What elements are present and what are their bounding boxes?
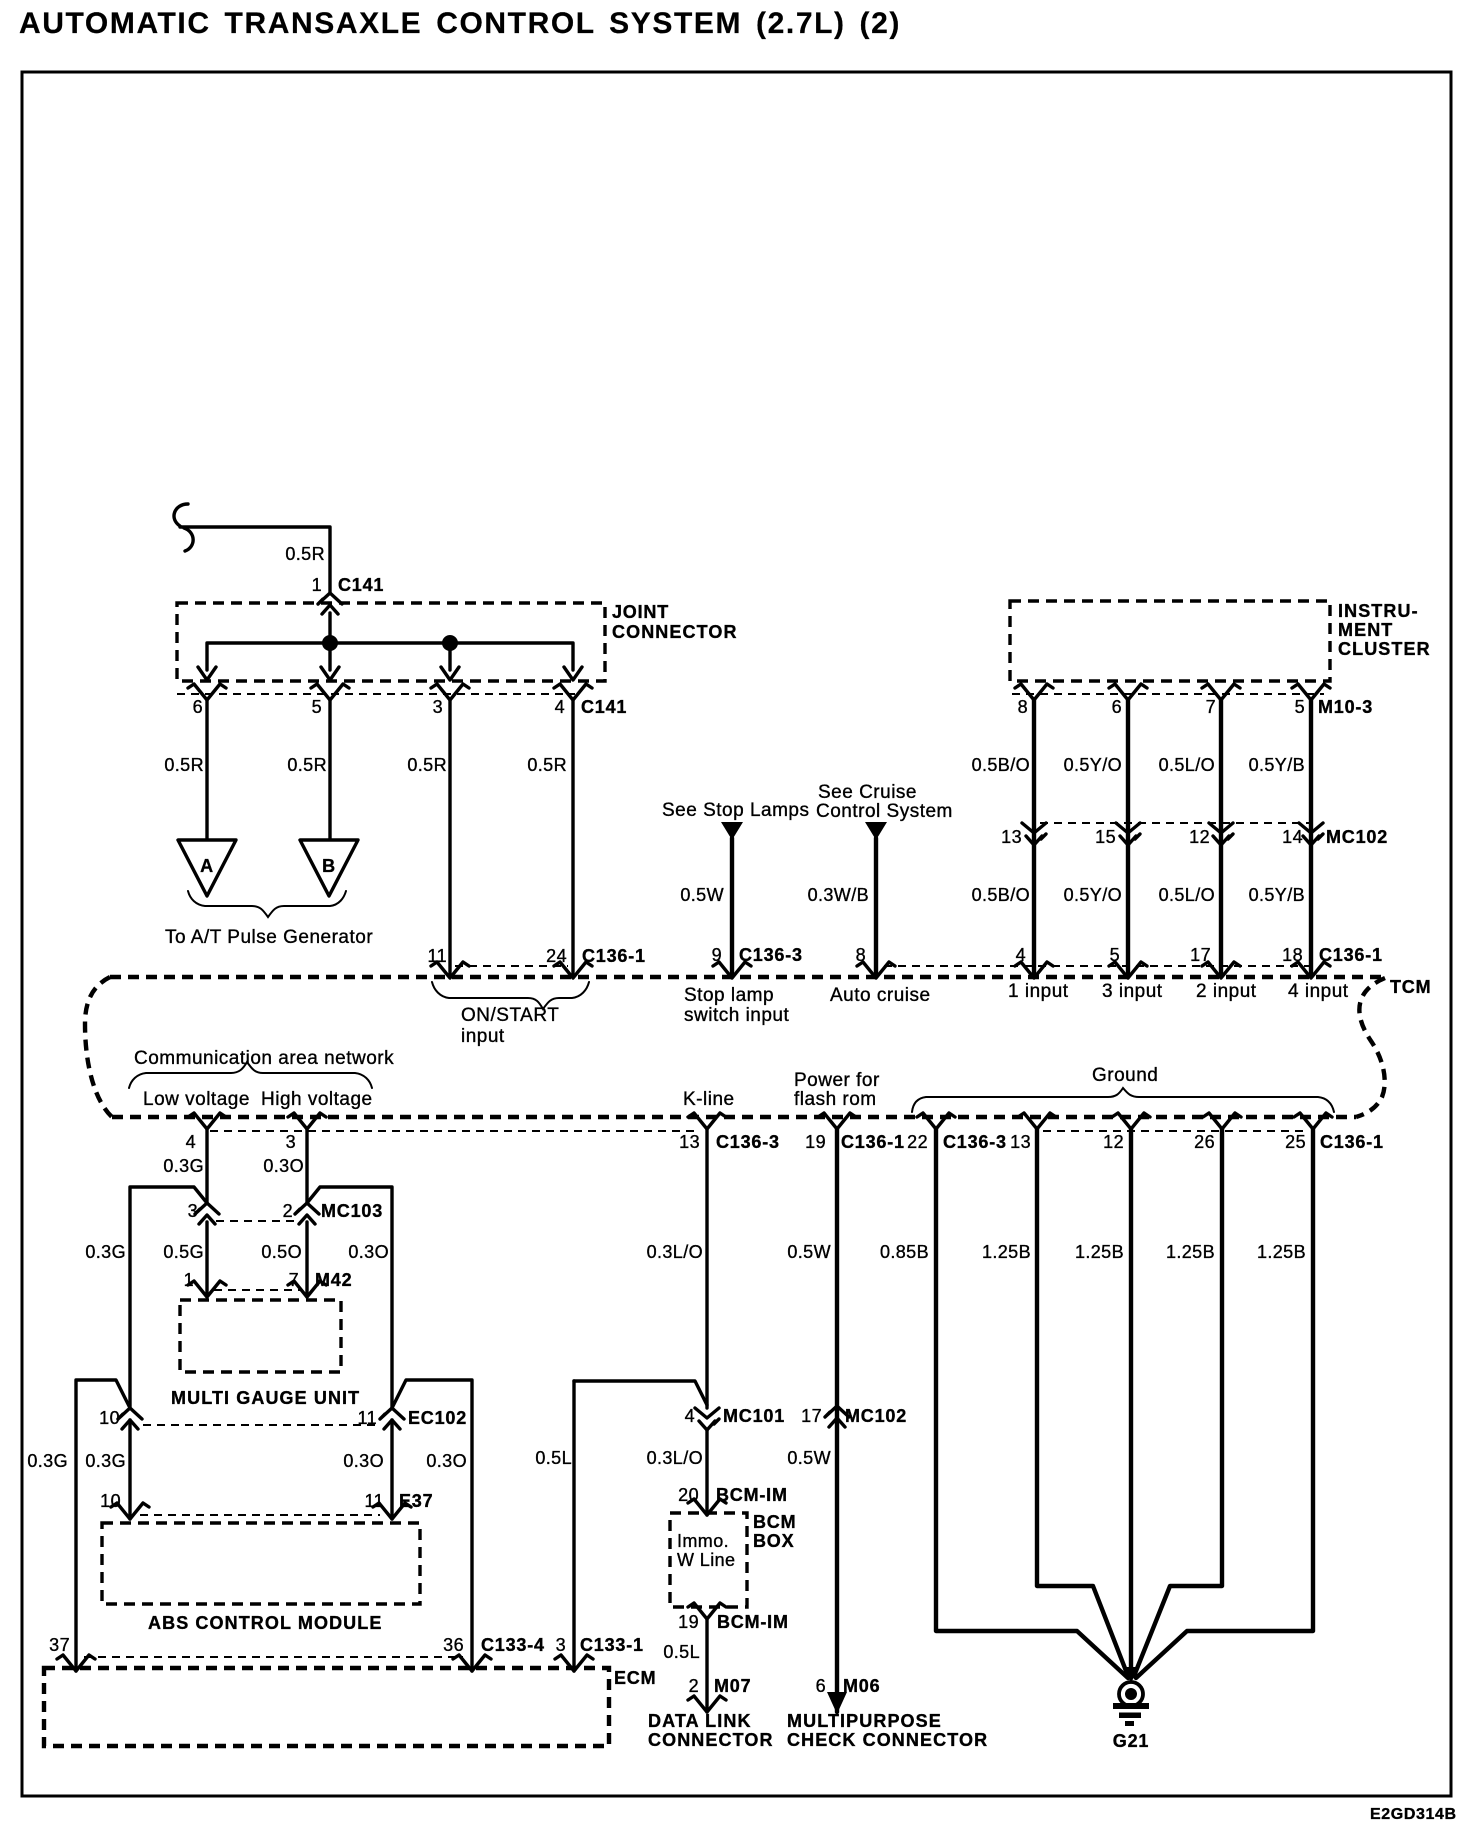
arrow M06 pin 6 — [827, 1692, 847, 1714]
svg-text:0.3O: 0.3O — [348, 1242, 389, 1262]
wire pin1 to bus — [328, 613, 331, 643]
svg-text:3 input: 3 input — [1102, 981, 1163, 1002]
svg-text:ON/START: ON/START — [461, 1005, 559, 1026]
TCM box left curve — [85, 977, 112, 1117]
svg-text:BOX: BOX — [753, 1531, 794, 1551]
connector line C136-3 (4/3/13) — [210, 1130, 700, 1132]
svg-text:0.5R: 0.5R — [164, 755, 204, 775]
svg-text:C136-1: C136-1 — [1319, 945, 1383, 965]
svg-text:0.5L: 0.5L — [535, 1448, 572, 1468]
svg-text:0.3O: 0.3O — [343, 1451, 384, 1471]
junction dot B — [442, 635, 458, 651]
svg-text:C141: C141 — [581, 697, 627, 717]
terminal A triangle — [178, 840, 236, 896]
wire 0.3G pin4 to MC103 — [205, 1129, 208, 1203]
svg-text:13: 13 — [1010, 1132, 1031, 1152]
svg-text:ABS CONTROL MODULE: ABS CONTROL MODULE — [148, 1613, 382, 1633]
INSTRUMENT CLUSTER box — [1010, 601, 1330, 681]
svg-text:3: 3 — [286, 1132, 296, 1152]
svg-text:0.5G: 0.5G — [163, 1242, 204, 1262]
TCM pin 17 input fork — [1202, 962, 1240, 978]
svg-text:0.3G: 0.3G — [163, 1156, 204, 1176]
TCM pin 5 input fork — [1109, 962, 1147, 978]
wire 0.5Y/O upper — [1126, 700, 1130, 977]
TCM box bottom edge — [112, 1115, 1356, 1119]
connector M42 pin 1 fork — [188, 1281, 226, 1297]
svg-text:Power for: Power for — [794, 1070, 880, 1091]
svg-text:11: 11 — [358, 1408, 378, 1428]
svg-text:5: 5 — [312, 697, 322, 717]
wire 0.5Y/B upper — [1309, 700, 1313, 977]
TCM bottom pin 3 fork — [288, 1113, 326, 1129]
brace communication area network — [129, 1062, 372, 1088]
brace Ground — [912, 1088, 1334, 1112]
svg-text:0.5Y/B: 0.5Y/B — [1249, 755, 1305, 775]
wire 0.5W flash rom — [835, 1129, 839, 1712]
svg-text:To A/T Pulse Generator: To A/T Pulse Generator — [165, 927, 373, 948]
svg-text:14: 14 — [1282, 827, 1303, 847]
svg-text:EC102: EC102 — [408, 1408, 467, 1428]
svg-text:input: input — [461, 1026, 505, 1047]
TCM bottom pin 4 fork — [188, 1113, 226, 1129]
svg-text:3: 3 — [188, 1201, 198, 1221]
svg-text:Communication area network: Communication area network — [134, 1048, 394, 1069]
svg-text:MC102: MC102 — [1326, 827, 1388, 847]
svg-text:M10-3: M10-3 — [1318, 697, 1373, 717]
wire 0.5R pin4 to TCM 24 — [571, 700, 574, 977]
svg-text:MULTIPURPOSE: MULTIPURPOSE — [787, 1711, 942, 1731]
svg-text:0.5R: 0.5R — [287, 755, 327, 775]
svg-text:0.3L/O: 0.3L/O — [647, 1448, 703, 1468]
svg-text:BCM-IM: BCM-IM — [716, 1485, 788, 1505]
wire 0.5G MC103 to M42 — [205, 1222, 208, 1297]
svg-text:See Cruise: See Cruise — [818, 782, 917, 803]
svg-text:MENT: MENT — [1338, 620, 1393, 640]
svg-text:1 input: 1 input — [1008, 981, 1069, 1002]
connector C141 pin 3 fork — [431, 684, 469, 700]
svg-text:0.5O: 0.5O — [261, 1242, 302, 1262]
svg-text:C133-4: C133-4 — [481, 1635, 545, 1655]
wire 0.3W/B auto cruise — [874, 838, 878, 977]
svg-text:BCM-IM: BCM-IM — [717, 1612, 789, 1632]
wire 0.5R pin6 to A — [205, 700, 208, 839]
BCM BOX box — [670, 1513, 747, 1607]
arrow to pin 6 — [198, 667, 216, 680]
svg-text:K-line: K-line — [683, 1089, 735, 1110]
svg-text:0.3L/O: 0.3L/O — [647, 1242, 703, 1262]
ECM box — [44, 1668, 609, 1746]
svg-text:ECM: ECM — [614, 1668, 656, 1688]
connector EC102 pin 10 chevrons — [118, 1408, 142, 1429]
connector M10-3 pin 6 fork — [1109, 684, 1147, 700]
svg-text:8: 8 — [1018, 697, 1028, 717]
svg-text:switch input: switch input — [684, 1005, 789, 1026]
svg-text:DATA LINK: DATA LINK — [648, 1711, 752, 1731]
off-page arrow (cruise) — [865, 822, 887, 840]
connector line C136-1 (8/4/5/17/18) — [884, 965, 1311, 967]
svg-text:19: 19 — [678, 1612, 699, 1632]
svg-text:0.3G: 0.3G — [85, 1451, 126, 1471]
svg-text:0.5W: 0.5W — [787, 1242, 831, 1262]
svg-text:22: 22 — [907, 1132, 928, 1152]
svg-text:0.5Y/B: 0.5Y/B — [1249, 885, 1305, 905]
svg-text:0.85B: 0.85B — [880, 1242, 929, 1262]
svg-text:15: 15 — [1095, 827, 1116, 847]
TCM pin 18 input fork — [1292, 962, 1330, 978]
svg-text:C136-1: C136-1 — [1320, 1132, 1384, 1152]
svg-text:17: 17 — [801, 1406, 822, 1426]
svg-text:High voltage: High voltage — [261, 1089, 373, 1110]
svg-text:1: 1 — [184, 1270, 194, 1290]
svg-text:5: 5 — [1295, 697, 1305, 717]
TCM bottom pin 25 fork — [1294, 1113, 1332, 1129]
connector E37 pin 10 fork — [111, 1503, 149, 1519]
svg-text:10: 10 — [99, 1408, 120, 1428]
wire squiggle (continuation mark) — [174, 504, 193, 551]
connector C141 pin 4 fork — [554, 684, 592, 700]
svg-text:C136-3: C136-3 — [943, 1132, 1007, 1152]
svg-text:M07: M07 — [714, 1676, 751, 1696]
wire 0.85B to G21 — [936, 1129, 1128, 1678]
svg-text:6: 6 — [193, 697, 203, 717]
connector line M10-3 — [1012, 693, 1324, 695]
svg-text:6: 6 — [1112, 697, 1122, 717]
TCM bottom pin 13 fork — [688, 1113, 726, 1129]
svg-text:0.5R: 0.5R — [407, 755, 447, 775]
svg-text:AUTOMATIC TRANSAXLE CONTROL SY: AUTOMATIC TRANSAXLE CONTROL SYSTEM (2.7L… — [19, 7, 901, 40]
svg-text:CLUSTER: CLUSTER — [1338, 639, 1431, 659]
svg-text:Low voltage: Low voltage — [143, 1089, 250, 1110]
ABS CONTROL MODULE box — [102, 1523, 420, 1604]
svg-text:0.3W/B: 0.3W/B — [808, 885, 869, 905]
ground G21 dot — [1125, 1688, 1137, 1700]
connector BCM-IM pin 19 fork — [688, 1603, 726, 1619]
wire branch MC103-2 to EC102-11 — [307, 1187, 392, 1407]
TCM pin 9 fork — [713, 962, 751, 978]
svg-text:MC101: MC101 — [723, 1406, 785, 1426]
svg-text:10: 10 — [100, 1491, 121, 1511]
wire 1.25B pin25 to G21 — [1136, 1129, 1313, 1678]
svg-text:M42: M42 — [315, 1270, 352, 1290]
connector line C133-4 — [84, 1656, 463, 1658]
wire branch MC103-3 to EC102-10 — [130, 1187, 207, 1407]
wire 0.5L/O upper — [1219, 700, 1223, 977]
svg-text:BCM: BCM — [753, 1512, 796, 1532]
wire 0.3L/O K-line — [705, 1129, 708, 1408]
connector MC103 pin 3 chevrons — [195, 1203, 219, 1224]
MULTI GAUGE UNIT box — [180, 1300, 341, 1372]
svg-text:C141: C141 — [338, 575, 384, 595]
svg-text:7: 7 — [1206, 697, 1216, 717]
connector M07 pin 2 fork — [688, 1696, 726, 1712]
connector line M42 — [214, 1289, 300, 1291]
TCM bottom pin 12 fork — [1112, 1113, 1150, 1129]
wire 0.5R pin3 to TCM 11 — [448, 700, 451, 977]
connector C141 pin 6 fork — [188, 684, 226, 700]
off-page arrow (stop lamps) — [721, 822, 743, 840]
svg-text:Control System: Control System — [816, 801, 953, 822]
connector C133-1 pin 3 fork — [555, 1655, 593, 1671]
svg-text:W Line: W Line — [677, 1550, 735, 1570]
svg-text:E2GD314B: E2GD314B — [1370, 1806, 1457, 1823]
svg-text:0.3G: 0.3G — [85, 1242, 126, 1262]
svg-text:0.5Y/O: 0.5Y/O — [1064, 755, 1122, 775]
svg-text:MC103: MC103 — [321, 1201, 383, 1221]
svg-text:6: 6 — [816, 1676, 826, 1696]
bus wire inside joint connector — [207, 643, 573, 670]
svg-text:0.5W: 0.5W — [680, 885, 724, 905]
connector MC101 pin 4 chevrons — [695, 1408, 719, 1430]
wire 0.5O MC103 to M42 — [305, 1222, 308, 1297]
wire 1.25B pin26 to G21 — [1134, 1129, 1222, 1676]
wire 0.3O pin3 to MC103 — [305, 1129, 308, 1203]
connector line MC103 — [216, 1220, 298, 1222]
svg-text:CONNECTOR: CONNECTOR — [612, 622, 738, 642]
ground G21 bar 3 — [1125, 1721, 1134, 1726]
TCM pin 24 fork — [554, 962, 592, 978]
svg-text:7: 7 — [289, 1270, 299, 1290]
svg-text:CONNECTOR: CONNECTOR — [648, 1730, 774, 1750]
svg-text:0.5L/O: 0.5L/O — [1159, 885, 1215, 905]
svg-text:Stop lamp: Stop lamp — [684, 985, 774, 1006]
svg-text:1.25B: 1.25B — [1166, 1242, 1215, 1262]
svg-text:Ground: Ground — [1092, 1065, 1158, 1086]
svg-text:1.25B: 1.25B — [982, 1242, 1031, 1262]
svg-text:M06: M06 — [843, 1676, 880, 1696]
arrow to pin 3 — [441, 667, 459, 680]
brace under A and B — [188, 891, 346, 917]
connector line C141 (pins 6/5/3/4) — [177, 693, 575, 695]
svg-text:CHECK CONNECTOR: CHECK CONNECTOR — [787, 1730, 988, 1750]
svg-text:20: 20 — [678, 1485, 699, 1505]
svg-text:1.25B: 1.25B — [1075, 1242, 1124, 1262]
ground G21 ring — [1119, 1682, 1143, 1706]
connector EC102 pin 11 chevrons — [380, 1408, 404, 1429]
wire 0.5B/O upper — [1032, 700, 1036, 977]
connector line E37 — [140, 1514, 380, 1516]
connector M10-3 pin 5 fork — [1292, 684, 1330, 700]
svg-text:C133-1: C133-1 — [580, 1635, 644, 1655]
svg-text:0.5L: 0.5L — [663, 1642, 700, 1662]
TCM box top edge — [110, 975, 1385, 979]
TCM pin 4 input fork — [1015, 962, 1053, 978]
TCM pin 11 fork — [431, 962, 469, 978]
connector C133-4 pin 36 fork — [453, 1655, 491, 1671]
wire 0.5R pin5 to B — [328, 700, 331, 839]
connector M10-3 pin 7 fork — [1202, 684, 1240, 700]
svg-text:Auto cruise: Auto cruise — [830, 985, 931, 1006]
TCM bottom pin 13b fork — [1018, 1113, 1056, 1129]
svg-text:E37: E37 — [399, 1491, 433, 1511]
svg-text:1.25B: 1.25B — [1257, 1242, 1306, 1262]
svg-text:MC102: MC102 — [845, 1406, 907, 1426]
connector line MC102 — [1040, 822, 1311, 824]
svg-text:flash rom: flash rom — [794, 1089, 877, 1110]
svg-text:INSTRU-: INSTRU- — [1338, 601, 1419, 621]
svg-text:3: 3 — [433, 697, 443, 717]
JOINT CONNECTOR box — [177, 603, 605, 681]
wire branch EC102-11 to ECM-36 — [392, 1380, 472, 1671]
wire 1.25B pin13 to G21 — [1037, 1129, 1128, 1676]
connector BCM-IM pin 20 fork — [688, 1499, 726, 1515]
wire 0.5R to C141 pin 1 — [180, 527, 330, 592]
TCM bottom pin 19 fork — [818, 1113, 856, 1129]
svg-text:G21: G21 — [1113, 1731, 1149, 1751]
svg-text:0.5B/O: 0.5B/O — [972, 885, 1030, 905]
wire 0.5L branch to MC101 — [574, 1381, 707, 1405]
svg-text:0.5W: 0.5W — [787, 1448, 831, 1468]
svg-text:2: 2 — [283, 1201, 293, 1221]
svg-text:36: 36 — [443, 1635, 464, 1655]
connector MC103 pin 2 chevrons — [295, 1203, 319, 1224]
svg-text:Immo.: Immo. — [677, 1531, 729, 1551]
svg-text:See Stop Lamps: See Stop Lamps — [662, 800, 809, 821]
svg-text:37: 37 — [49, 1635, 70, 1655]
svg-text:13: 13 — [1001, 827, 1022, 847]
TCM bottom pin 22 fork — [917, 1113, 955, 1129]
svg-text:25: 25 — [1285, 1132, 1306, 1152]
TCM bottom pin 26 fork — [1203, 1113, 1241, 1129]
connector C141 pin 1 chevrons — [318, 593, 342, 614]
ground G21 arrow — [1123, 1667, 1139, 1683]
svg-text:0.3G: 0.3G — [27, 1451, 68, 1471]
svg-text:12: 12 — [1103, 1132, 1124, 1152]
wire 0.5L to ECM pin 3 — [572, 1381, 575, 1671]
svg-text:0.3O: 0.3O — [426, 1451, 467, 1471]
svg-text:4: 4 — [555, 697, 565, 717]
connector MC102 pin 14 chevrons — [1299, 823, 1323, 845]
ground G21 bar 2 — [1119, 1713, 1141, 1719]
svg-text:JOINT: JOINT — [612, 602, 669, 622]
svg-text:2: 2 — [689, 1676, 699, 1696]
svg-text:0.3O: 0.3O — [263, 1156, 304, 1176]
wire branch EC102-10 to ECM-37 — [76, 1380, 130, 1671]
svg-text:C136-1: C136-1 — [582, 946, 646, 966]
connector MC102 pin 13 chevrons — [1022, 823, 1046, 845]
svg-text:26: 26 — [1194, 1132, 1215, 1152]
svg-text:19: 19 — [805, 1132, 826, 1152]
svg-text:11: 11 — [365, 1491, 385, 1511]
wire 0.3G EC102 to E37 — [128, 1420, 131, 1519]
connector MC102 pin 12 chevrons — [1209, 823, 1233, 845]
svg-text:1: 1 — [312, 575, 322, 595]
wire 0.3O EC102 to E37 — [390, 1420, 393, 1519]
svg-text:0.5R: 0.5R — [285, 544, 325, 564]
wire 0.3L/O MC101 to BCM — [705, 1430, 708, 1515]
svg-text:12: 12 — [1189, 827, 1210, 847]
svg-text:B: B — [322, 856, 336, 876]
wire 0.5W stop lamp — [730, 838, 734, 977]
TCM pin 8 fork — [857, 962, 895, 978]
arrow to pin 5 — [321, 667, 339, 680]
TCM box right curve — [1356, 978, 1385, 1117]
connector MC102 pin 15 chevrons — [1116, 823, 1140, 845]
svg-text:0.5B/O: 0.5B/O — [972, 755, 1030, 775]
svg-text:0.5R: 0.5R — [527, 755, 567, 775]
brace ON/START — [432, 982, 589, 1009]
svg-text:0.5L/O: 0.5L/O — [1159, 755, 1215, 775]
ground G21 bar 1 — [1113, 1703, 1149, 1709]
connector line C136-1 (13/12/26/25) — [1043, 1130, 1306, 1132]
connector C141 pin 5 fork — [311, 684, 349, 700]
wire 0.5L BCM to M07 — [705, 1619, 708, 1712]
svg-text:4 input: 4 input — [1288, 981, 1349, 1002]
svg-text:C136-1: C136-1 — [841, 1132, 905, 1152]
junction dot A — [322, 635, 338, 651]
svg-text:13: 13 — [679, 1132, 700, 1152]
connector line C136-1 (11/24) — [455, 965, 568, 967]
connector C133-4 pin 37 fork — [57, 1655, 95, 1671]
connector MC102 pin 17 chevrons — [825, 1406, 849, 1427]
connector E37 pin 11 fork — [373, 1503, 411, 1519]
svg-text:TCM: TCM — [1390, 977, 1431, 997]
svg-text:3: 3 — [556, 1635, 566, 1655]
svg-text:MULTI GAUGE UNIT: MULTI GAUGE UNIT — [171, 1388, 360, 1408]
svg-text:4: 4 — [186, 1132, 196, 1152]
svg-text:C136-3: C136-3 — [716, 1132, 780, 1152]
arrow to pin 4 — [564, 667, 582, 680]
svg-text:C136-3: C136-3 — [739, 945, 803, 965]
svg-text:2 input: 2 input — [1196, 981, 1257, 1002]
connector M10-3 pin 8 fork — [1015, 684, 1053, 700]
svg-text:0.5Y/O: 0.5Y/O — [1064, 885, 1122, 905]
connector line EC102 — [143, 1424, 380, 1426]
svg-text:A: A — [200, 856, 214, 876]
svg-text:4: 4 — [685, 1406, 695, 1426]
terminal B triangle — [300, 840, 358, 896]
wire 1.25B pin12 to G21 — [1129, 1129, 1133, 1678]
connector M42 pin 7 fork — [288, 1281, 326, 1297]
